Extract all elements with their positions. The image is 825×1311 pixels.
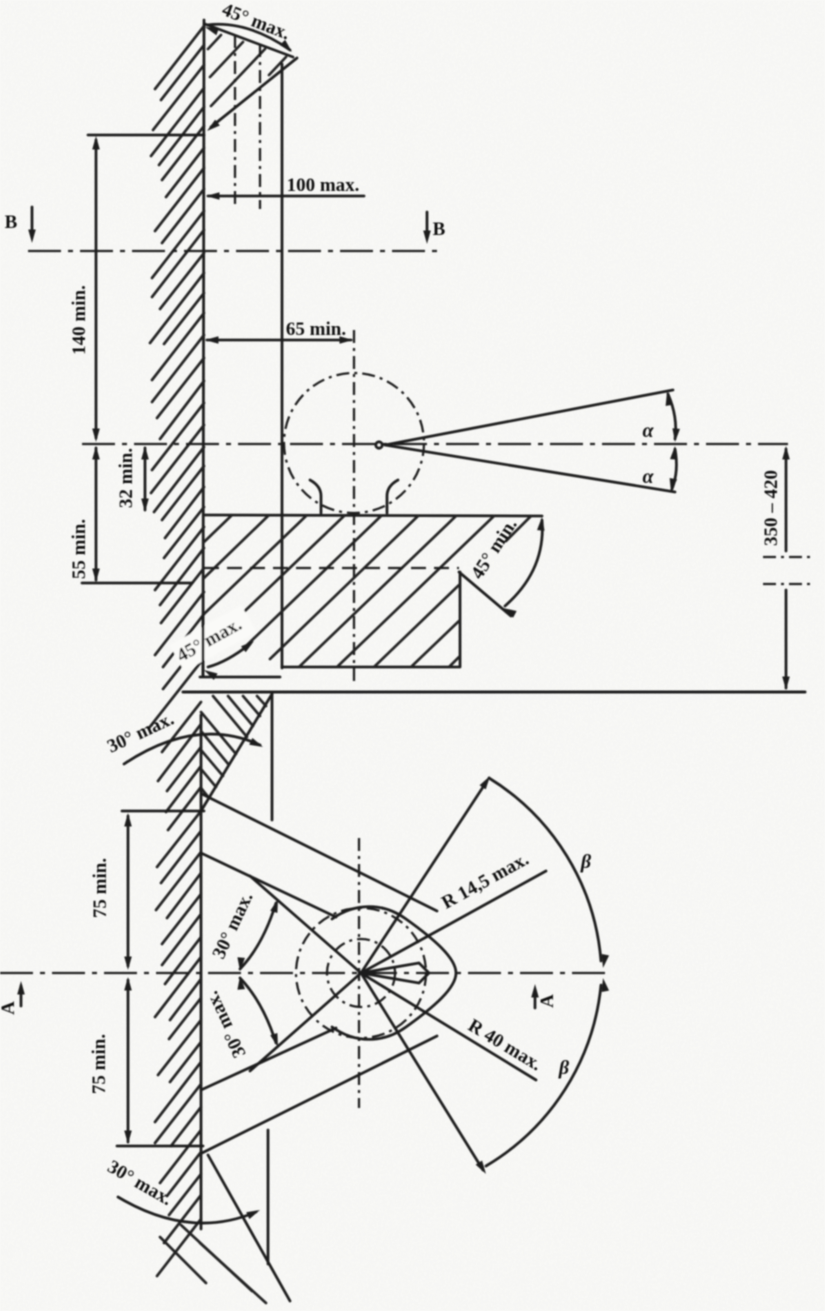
- 30 max arc (top corner): [124, 734, 260, 764]
- svg-text:B: B: [5, 212, 18, 233]
- alpha arc upper: [668, 394, 676, 439]
- block bottom edge: [282, 666, 460, 669]
- centerline phantom verticals: [234, 35, 236, 209]
- svg-text:65 min.: 65 min.: [286, 319, 346, 340]
- hub phantom circle outer: [296, 908, 426, 1038]
- beta arc upper: [489, 778, 601, 961]
- R 14,5 max line: [361, 871, 546, 973]
- horizontal centerline through ball: [82, 443, 788, 445]
- swing ray lower: [250, 973, 361, 1071]
- wall face lower segment: [202, 615, 205, 676]
- dimension 140 min: [95, 140, 98, 438]
- hub phantom circle inner: [327, 939, 395, 1007]
- section marker A left: [20, 986, 23, 1006]
- svg-text:350 – 420: 350 – 420: [761, 470, 782, 546]
- 45 max arc (wall bottom): [170, 606, 256, 672]
- coupling ball (phantom circle): [284, 373, 424, 513]
- alpha cone lower line: [385, 445, 675, 492]
- beta arc lower: [486, 985, 601, 1166]
- svg-text:α: α: [642, 420, 654, 442]
- section marker A right: [534, 990, 537, 1008]
- bottom corner hatching: [160, 1225, 266, 1303]
- block right edge: [459, 572, 462, 666]
- wall hatching (side view): [149, 26, 204, 728]
- beta radial lower: [361, 973, 483, 1170]
- ground line: [183, 691, 805, 694]
- chamfer hatching: [208, 35, 286, 106]
- 45 max dimension arc: [207, 24, 290, 50]
- hub vertical centerline: [358, 838, 360, 1108]
- dimension 75 min lower: [127, 980, 130, 1142]
- beta radial upper: [361, 781, 487, 973]
- svg-text:75 min.: 75 min.: [89, 1034, 110, 1094]
- 45-degree chamfer line with arrow: [211, 58, 297, 127]
- dimension 55 min: [95, 448, 98, 580]
- bottom corner 30 chamfer: [208, 1155, 290, 1301]
- svg-text:32 min.: 32 min.: [116, 448, 137, 508]
- block 45 ramp: [459, 572, 511, 616]
- top reference line: [88, 134, 204, 137]
- 45 min arc: [505, 520, 542, 606]
- R 40 max line: [361, 973, 536, 1080]
- direction apex: [361, 963, 429, 983]
- coupling head outline: [332, 907, 456, 1040]
- bracket top edge: [205, 24, 293, 57]
- dimension 75 min upper: [122, 810, 204, 813]
- towbar upper arm bottom edge: [201, 853, 336, 917]
- alpha arc lower: [672, 449, 676, 489]
- wall face line (side view): [203, 20, 204, 676]
- svg-text:100 max.: 100 max.: [287, 175, 360, 196]
- svg-text:α: α: [642, 466, 654, 488]
- svg-text:140 min.: 140 min.: [69, 285, 90, 355]
- dimension 32 min: [144, 448, 147, 510]
- swing ray upper: [250, 876, 361, 973]
- svg-text:55 min.: 55 min.: [69, 519, 90, 579]
- block hatching: [204, 516, 531, 666]
- towbar lower arm top edge: [201, 1028, 336, 1090]
- svg-text:B: B: [433, 219, 446, 240]
- 30 max arc upper: [240, 903, 276, 969]
- towbar upper arm top edge: [202, 794, 437, 911]
- wall face line (plan view): [200, 715, 203, 1229]
- svg-text:β: β: [558, 1057, 570, 1079]
- top corner 30 chamfer: [201, 694, 272, 811]
- top corner original edge: [271, 694, 274, 820]
- dimension 350-420: [785, 449, 788, 551]
- top corner hatching: [201, 696, 266, 798]
- 30 max arc lower: [240, 978, 276, 1043]
- hidden dashed line in block: [204, 567, 459, 569]
- section line A-A: [0, 972, 609, 974]
- ball neck left: [310, 480, 321, 513]
- dimension 65 min: [207, 339, 351, 342]
- bottom corner edge: [267, 1130, 270, 1264]
- wall hatching (plan): [155, 702, 201, 1276]
- bracket right edge: [281, 64, 284, 668]
- ball neck right: [387, 480, 398, 513]
- dimension 100 max: [208, 195, 364, 198]
- svg-text:A: A: [537, 994, 558, 1008]
- section line B-B: [28, 250, 438, 252]
- 30 max arc (bottom corner): [118, 1197, 256, 1223]
- lower block top surface: [204, 515, 542, 516]
- towbar lower arm bottom edge: [202, 1036, 437, 1153]
- svg-text:A: A: [0, 1001, 19, 1015]
- svg-text:β: β: [580, 851, 592, 873]
- ball vertical centerline: [353, 330, 355, 684]
- svg-text:75 min.: 75 min.: [90, 858, 111, 918]
- cone apex: [376, 442, 382, 448]
- alpha cone upper line: [385, 390, 673, 445]
